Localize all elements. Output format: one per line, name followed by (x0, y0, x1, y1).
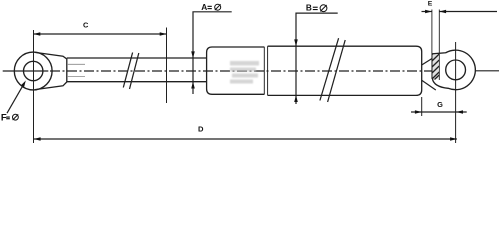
hatch band right edge / E extension right (438, 10, 440, 81)
hatch band left edge / E extension left (431, 10, 433, 79)
hatch stroke 1 (432, 54, 439, 61)
left eyelet body cone to rod (35, 52, 67, 89)
hatch stroke 5 (435, 75, 440, 80)
rod bottom line (67, 81, 207, 83)
right end cone upper edge (422, 58, 434, 65)
cylinder left section outline (207, 47, 265, 94)
arrowhead D left (34, 137, 41, 141)
label F = dia (1, 112, 18, 123)
centerline left solid segment through left eyelet (3, 70, 49, 72)
svg-text:B: B (306, 2, 312, 12)
dimension A leader underline (193, 12, 232, 94)
hatch band tint (433, 55, 439, 79)
arrowhead A top (down) (191, 51, 195, 58)
svg-text:G: G (437, 100, 443, 109)
right eyelet vertical centerline (455, 42, 457, 143)
arrowhead C right (160, 32, 167, 36)
right eyelet body outline with outer circle (432, 50, 475, 90)
arrowhead B bottom (up) (294, 95, 298, 102)
hatch stroke 2 (432, 60, 439, 67)
centerline right solid segment through right eyelet (439, 70, 499, 72)
centerline main dash-dot (50, 70, 434, 72)
left eyelet outer circle (14, 52, 52, 90)
watermark blob (230, 61, 259, 84)
label A = dia (201, 2, 220, 12)
arrowhead E right (left-pointing) (439, 10, 446, 14)
leader line F (7, 83, 24, 113)
svg-text:D: D (198, 125, 204, 134)
rod joint stub line lower (67, 76, 85, 78)
dimension G line (411, 111, 467, 113)
right end cone lower edge (422, 80, 436, 90)
left eyelet vertical centerline (33, 30, 35, 143)
dimension C line (34, 33, 167, 35)
svg-text:E: E (428, 0, 433, 7)
cylinder seam line right (267, 46, 269, 95)
dimension D line (34, 138, 457, 140)
svg-text:C: C (83, 21, 89, 30)
dimension G extension line at tube end (421, 97, 423, 116)
left eyelet inner hole circle F (24, 61, 43, 80)
rod joint stub line upper (67, 63, 85, 65)
svg-text:A: A (201, 2, 207, 12)
arrowhead B top (down) (294, 39, 298, 46)
tube break line 2 (328, 40, 346, 102)
svg-text:F: F (1, 112, 7, 123)
arrowhead C left (34, 32, 41, 36)
dimension B leader underline (296, 13, 338, 104)
hatch stroke 4 (432, 72, 439, 79)
cylinder seam line left (263, 47, 265, 95)
arrowhead G right (left-pointing) (456, 110, 463, 114)
dimension C right extension line (166, 28, 168, 104)
arrowhead F leader (21, 81, 26, 88)
dimension E right tail (439, 11, 497, 13)
arrowhead G left (right-pointing) (415, 110, 422, 114)
tube break line 1 (320, 38, 339, 100)
arrowhead E left (right-pointing) (425, 10, 432, 14)
label B = dia (306, 2, 327, 12)
rod break line 2 (130, 53, 139, 89)
arrowhead D right (450, 137, 457, 141)
cylinder main tube outline (268, 46, 422, 95)
arrowhead A bottom (up) (191, 82, 195, 89)
hatch stroke 3 (432, 66, 439, 73)
rod break line 1 (123, 53, 132, 88)
dimension E left tail (422, 11, 432, 13)
rod top line (67, 57, 207, 59)
right eyelet inner hole circle (446, 60, 466, 80)
